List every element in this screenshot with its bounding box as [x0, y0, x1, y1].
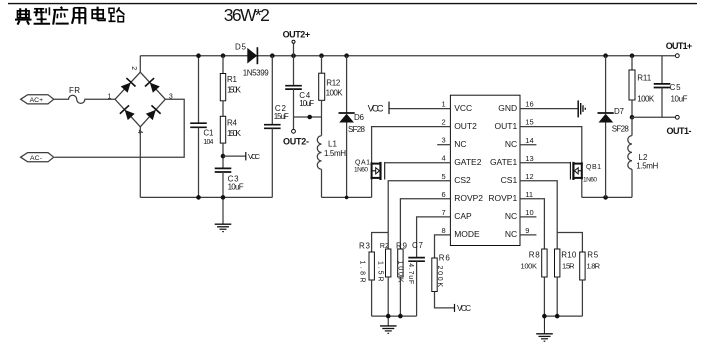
wire main top bus — [140, 55, 675, 57]
svg-text:R6: R6 — [439, 254, 451, 263]
svg-text:D5: D5 — [235, 42, 247, 51]
svg-text:CAP: CAP — [454, 211, 472, 221]
terminal OUT2- — [293, 117, 295, 129]
svg-text:15uF: 15uF — [274, 112, 289, 121]
wire switch rail left — [322, 196, 372, 198]
node dot bus C1 — [196, 53, 201, 58]
wire switch rail right — [582, 196, 632, 198]
node dot OUT1- R11 — [630, 115, 635, 120]
inductor L2 — [631, 117, 633, 135]
node dot bus C2 — [270, 53, 275, 58]
node dot sense bus R9 — [398, 314, 403, 319]
node dot switch rail D7 — [603, 195, 608, 200]
svg-text:13: 13 — [525, 154, 533, 163]
terminal OUT2+ — [293, 43, 295, 56]
svg-text:C7: C7 — [412, 241, 424, 250]
wire pin15 OUT1 to QB1 drain — [520, 127, 582, 165]
svg-text:AC-: AC- — [30, 155, 42, 162]
wire QA1 source down to rail — [371, 179, 373, 197]
wire R12 to L1 — [321, 100, 323, 136]
wire left sense ground bus — [372, 315, 417, 317]
svg-text:8: 8 — [442, 226, 446, 235]
wire R4 to C3 node — [222, 143, 224, 168]
svg-text:100K: 100K — [637, 95, 655, 104]
resistor R1 — [222, 56, 224, 74]
node dot sense bus R2 — [386, 314, 391, 319]
wire bridge node4 down to ground bus — [139, 127, 141, 198]
title: 电 — [92, 7, 105, 21]
fuse FR — [54, 95, 115, 103]
svg-text:AC+: AC+ — [30, 97, 44, 104]
svg-text:9: 9 — [525, 226, 529, 235]
resistor R3 — [369, 252, 374, 280]
bridge diode upper-right — [145, 78, 161, 94]
svg-text:14: 14 — [525, 136, 533, 145]
svg-text:SF28: SF28 — [348, 125, 366, 134]
wire pin12 CS1 — [520, 181, 557, 249]
title: 典 — [15, 8, 32, 24]
ground symbol left sense — [380, 316, 397, 333]
svg-text:R4: R4 — [227, 119, 238, 128]
title: 路 — [109, 7, 125, 21]
svg-text:L2: L2 — [638, 153, 648, 162]
wire pin4 GATE2 lead — [385, 162, 451, 164]
node dot gnd bus C1 — [196, 195, 201, 200]
svg-text:QB1: QB1 — [586, 164, 601, 171]
svg-text:OUT2: OUT2 — [454, 121, 477, 131]
svg-text:R1: R1 — [227, 75, 238, 84]
svg-text:104: 104 — [203, 139, 213, 146]
wire pin11 ROVP1 — [520, 199, 544, 249]
svg-text:VCC: VCC — [454, 103, 472, 113]
pin 10 label and NC stub — [520, 216, 536, 218]
svg-text:1.5R: 1.5R — [562, 262, 575, 271]
svg-text:1.5mH: 1.5mH — [636, 162, 658, 171]
diode D7 — [605, 56, 607, 113]
capacitor C2 — [271, 56, 273, 125]
svg-text:5: 5 — [442, 172, 446, 181]
svg-text:R2: R2 — [380, 243, 389, 250]
svg-text:10uF: 10uF — [671, 94, 688, 103]
svg-text:6: 6 — [442, 190, 446, 199]
op-amp U1 IC box — [450, 95, 520, 245]
svg-text:3: 3 — [169, 94, 173, 101]
svg-text:R10: R10 — [561, 251, 577, 260]
pin 3 label and NC stub — [437, 144, 450, 146]
wire QB1 source down to rail — [581, 179, 583, 197]
node dot VCC tap — [221, 154, 226, 159]
bridge rectifier diamond — [115, 72, 165, 127]
svg-text:OUT1+: OUT1+ — [666, 41, 693, 51]
svg-text:OUT1-: OUT1- — [667, 126, 692, 136]
resistor R8 — [542, 249, 547, 277]
wire R1 to R4 — [222, 101, 224, 117]
svg-text:10uF: 10uF — [299, 99, 314, 108]
capacitor C5 — [661, 56, 663, 84]
svg-text:150K: 150K — [227, 85, 242, 94]
capacitor C4 — [293, 56, 295, 86]
wire OUT1- line — [632, 116, 675, 118]
terminal OUT1- — [675, 115, 679, 119]
svg-text:VCC: VCC — [248, 152, 261, 161]
svg-text:MODE: MODE — [454, 229, 480, 239]
svg-text:1N60: 1N60 — [354, 167, 368, 174]
connector AC- flag — [21, 153, 54, 162]
svg-text:VCC: VCC — [457, 304, 471, 313]
wire pin8 MODE — [435, 235, 451, 258]
svg-text:QA1: QA1 — [355, 159, 370, 166]
wire pin13 GATE1 lead — [520, 162, 570, 164]
ground symbol pin16 rotated — [520, 108, 578, 110]
svg-text:1.8R: 1.8R — [587, 262, 601, 271]
connector AC+ flag — [21, 95, 54, 104]
svg-text:D7: D7 — [614, 107, 625, 116]
svg-text:2: 2 — [442, 118, 446, 127]
svg-text:CS1: CS1 — [501, 175, 518, 185]
svg-text:1N5399: 1N5399 — [243, 68, 270, 77]
resistor R9 — [398, 249, 403, 277]
wire pin6 ROVP2 — [400, 199, 450, 249]
svg-text:200K: 200K — [436, 266, 443, 288]
resistor R5 — [580, 252, 585, 280]
resistor R11 — [631, 56, 633, 70]
wire pin2 OUT2 to QA1 drain — [372, 127, 451, 163]
svg-text:R12: R12 — [326, 79, 341, 88]
svg-text:1.8R: 1.8R — [358, 261, 365, 283]
svg-text:GATE1: GATE1 — [490, 157, 518, 167]
svg-text:VCC: VCC — [368, 103, 384, 114]
wire L2 to rail — [631, 169, 633, 197]
ground symbol center — [215, 197, 232, 231]
wire R3 jog — [372, 233, 389, 253]
node dot bus R11 — [630, 53, 635, 58]
svg-text:NC: NC — [505, 229, 517, 239]
svg-text:OUT1: OUT1 — [495, 121, 518, 131]
svg-text:L1: L1 — [328, 140, 338, 149]
VCC port bottom — [435, 292, 455, 308]
capacitor C3 — [215, 167, 232, 169]
svg-text:OUT2+: OUT2+ — [283, 30, 311, 40]
svg-text:1.5R: 1.5R — [376, 261, 383, 282]
node dot bus OUT2+ — [291, 53, 296, 58]
node dot sense bus R8 — [542, 314, 547, 319]
svg-text:OUT2-: OUT2- — [283, 136, 309, 146]
diode D6 — [346, 56, 348, 113]
svg-text:4.7uF: 4.7uF — [407, 263, 414, 284]
svg-text:C1: C1 — [203, 129, 214, 138]
svg-text:CS2: CS2 — [454, 175, 471, 185]
svg-text:FR: FR — [69, 86, 80, 95]
svg-text:D6: D6 — [354, 113, 365, 122]
svg-text:10uF: 10uF — [228, 182, 244, 191]
svg-text:11: 11 — [525, 190, 533, 199]
wire pin7 CAP — [417, 217, 451, 257]
svg-text:R5: R5 — [587, 251, 599, 260]
wire pin5 CS2 — [388, 181, 450, 249]
svg-text:SF28: SF28 — [612, 125, 630, 134]
title: 型 — [34, 7, 51, 24]
transistor QB1 — [570, 162, 582, 180]
node dot bus R1 — [221, 53, 226, 58]
node dot sense bus R10 — [555, 314, 560, 319]
wire AC- to bridge node 3 — [55, 99, 185, 157]
bridge diode lower-left — [120, 105, 136, 121]
svg-text:16: 16 — [525, 100, 533, 109]
svg-text:3: 3 — [442, 136, 446, 145]
wire bottom ground bus left — [140, 196, 272, 198]
node dot bus D6 — [344, 53, 349, 58]
title: 应 — [53, 7, 68, 25]
svg-text:R9: R9 — [396, 241, 408, 250]
capacitor C7 — [408, 257, 425, 259]
svg-text:100K: 100K — [326, 88, 344, 97]
diode D5 — [247, 48, 257, 64]
svg-text:150K: 150K — [227, 129, 242, 138]
svg-text:GND: GND — [498, 103, 517, 113]
svg-text:NC: NC — [505, 139, 517, 149]
wire right sense ground bus — [544, 315, 582, 317]
pin 14 label and NC stub — [520, 144, 536, 146]
resistor R4 — [220, 116, 225, 143]
node dot bus R12 — [319, 53, 324, 58]
svg-text:4: 4 — [136, 130, 143, 134]
capacitor C1 — [198, 56, 200, 123]
svg-text:ROVP1: ROVP1 — [488, 193, 517, 203]
svg-text:NC: NC — [454, 139, 466, 149]
bridge diode upper-left — [120, 78, 136, 94]
svg-text:100K: 100K — [521, 262, 538, 271]
node dot bus D7 — [603, 53, 608, 58]
top rule — [8, 3, 697, 5]
svg-text:2: 2 — [130, 66, 137, 70]
node dot switch rail D6 — [345, 196, 349, 200]
svg-text:GATE2: GATE2 — [454, 157, 482, 167]
title: 用 — [72, 8, 85, 25]
bridge diode lower-right — [145, 105, 161, 121]
svg-text:R8: R8 — [529, 251, 541, 260]
svg-text:10: 10 — [525, 208, 533, 217]
svg-text:ROVP2: ROVP2 — [454, 193, 483, 203]
svg-text:1N60: 1N60 — [583, 176, 597, 183]
resistor R2 — [386, 249, 391, 277]
svg-text:1.5mH: 1.5mH — [324, 149, 346, 158]
svg-text:12: 12 — [525, 172, 533, 181]
svg-text:NC: NC — [505, 211, 517, 221]
pin 9 label and NC stub — [520, 234, 536, 236]
svg-text:7: 7 — [442, 208, 446, 217]
resistor R10 — [555, 249, 560, 277]
wire C4 node to R12 column — [294, 116, 322, 118]
ground symbol right sense — [536, 316, 553, 341]
svg-text:R3: R3 — [359, 241, 371, 250]
transistor QA1 — [371, 162, 385, 180]
resistor R6 — [432, 258, 437, 292]
svg-text:R11: R11 — [637, 73, 652, 82]
node dot gnd bus C3 — [221, 195, 226, 200]
wire R5 jog — [557, 233, 582, 253]
terminal OUT1+ — [675, 54, 679, 58]
svg-text:15: 15 — [525, 118, 533, 127]
resistor R12 — [321, 56, 323, 73]
inductor L1 — [317, 136, 321, 170]
node dot C4 line — [307, 115, 312, 120]
svg-text:C5: C5 — [670, 83, 682, 92]
svg-text:1: 1 — [442, 100, 446, 109]
wire L1 to switch rail — [321, 169, 323, 197]
svg-text:4: 4 — [442, 154, 446, 163]
wire bridge top stem — [139, 56, 141, 72]
svg-text:1: 1 — [108, 94, 112, 101]
VCC port mid-left — [223, 155, 245, 157]
svg-text:36W*2: 36W*2 — [224, 5, 270, 25]
